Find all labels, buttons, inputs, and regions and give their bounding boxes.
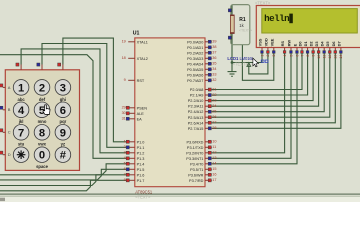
svg-text:vwx: vwx xyxy=(38,142,47,147)
svg-text:<TEXT>: <TEXT> xyxy=(239,29,252,33)
svg-text:17: 17 xyxy=(212,178,216,182)
pin ALE (30) xyxy=(128,112,135,114)
pin P0.2/AD2 (37) xyxy=(205,52,212,54)
wire P2.4 to LCD D4 xyxy=(212,53,324,112)
key 3 xyxy=(55,80,71,96)
pin P0.4/AD4 (35) xyxy=(205,63,212,65)
LCD pin VEE (3) xyxy=(273,48,275,52)
svg-text:12: 12 xyxy=(212,151,216,155)
hand cursor on key 5 xyxy=(43,105,50,115)
svg-text:8: 8 xyxy=(39,127,45,139)
svg-text:D2: D2 xyxy=(309,41,314,47)
svg-text:XTAL2: XTAL2 xyxy=(137,57,148,61)
svg-text:P1.6: P1.6 xyxy=(137,173,145,177)
pin P2.7/A15 (28) xyxy=(205,127,212,129)
svg-text:4: 4 xyxy=(124,156,126,160)
svg-text:<TEXT>: <TEXT> xyxy=(233,61,249,66)
LCD pin D0 (7) xyxy=(301,48,303,52)
svg-text:34: 34 xyxy=(212,67,216,71)
key 9 xyxy=(55,125,71,141)
svg-text:RW: RW xyxy=(287,40,292,47)
svg-text:EA: EA xyxy=(137,117,143,121)
wire P1.4 to keypad row A via bottom xyxy=(0,164,128,175)
pin P1.1 (2) xyxy=(128,146,135,148)
svg-text:P1.7: P1.7 xyxy=(137,179,145,183)
svg-text:helln: helln xyxy=(264,13,289,24)
wire P3.3 to LCD RW xyxy=(212,53,291,158)
keypad column pin 3 xyxy=(62,65,64,70)
svg-text:RST: RST xyxy=(137,79,145,83)
svg-text:15: 15 xyxy=(212,167,216,171)
svg-text:D4: D4 xyxy=(320,41,325,47)
pin P3.0/RXD (10) xyxy=(205,141,212,143)
svg-text:P1.1: P1.1 xyxy=(137,146,145,150)
pin P3.4/T0 (14) xyxy=(205,163,212,165)
keypad column pin 1 xyxy=(20,65,22,70)
svg-text:P0.5/AD5: P0.5/AD5 xyxy=(187,68,203,72)
key 4 xyxy=(13,102,29,118)
svg-text:7: 7 xyxy=(18,127,24,139)
pin P1.6 (7) xyxy=(128,174,135,176)
wire P2.7 to LCD D7 xyxy=(212,53,341,128)
pin EA (31) xyxy=(128,118,135,120)
pin P0.3/AD3 (36) xyxy=(205,57,212,59)
svg-text:D7: D7 xyxy=(336,41,341,46)
svg-text:21: 21 xyxy=(212,87,216,91)
svg-text:P1.3: P1.3 xyxy=(137,157,145,161)
keypad column pin 2 xyxy=(41,65,43,70)
svg-text:2: 2 xyxy=(266,55,270,57)
svg-text:RS: RS xyxy=(280,41,285,47)
mouse arrow cursor xyxy=(253,58,259,67)
LCD pin D2 (9) xyxy=(312,48,314,52)
svg-text:A: A xyxy=(8,85,11,90)
svg-text:30: 30 xyxy=(122,111,126,115)
pin P0.5/AD5 (34) xyxy=(205,68,212,70)
key 0 xyxy=(34,147,50,163)
svg-text:14: 14 xyxy=(212,162,216,166)
svg-text:16: 16 xyxy=(212,173,216,177)
svg-text:2: 2 xyxy=(124,145,126,149)
svg-text:P2.6/A14: P2.6/A14 xyxy=(188,121,204,125)
svg-text:0: 0 xyxy=(39,150,45,162)
svg-text:8: 8 xyxy=(124,178,126,182)
MCU U1 AT89C51 xyxy=(135,38,205,187)
svg-text:P0.2/AD2: P0.2/AD2 xyxy=(187,51,203,55)
LCD pin VSS (1) xyxy=(261,48,263,52)
svg-text:37: 37 xyxy=(212,51,216,55)
svg-text:<TEXT>: <TEXT> xyxy=(135,195,151,200)
svg-text:abc: abc xyxy=(17,97,25,102)
svg-text:<TEXT>: <TEXT> xyxy=(255,0,271,5)
svg-text:P3.2/INT0: P3.2/INT0 xyxy=(186,151,203,155)
wire P2.3 to LCD D3 xyxy=(212,53,319,106)
pin PSEN (29) xyxy=(128,107,135,109)
key 2 xyxy=(34,80,50,96)
svg-text:VDD: VDD xyxy=(263,38,268,46)
keypad row pin A xyxy=(3,86,6,88)
svg-text:P0.1/AD1: P0.1/AD1 xyxy=(187,46,203,50)
LCD pin VDD (2) xyxy=(267,48,269,52)
wire P1.7 to keypad row D via bottom xyxy=(0,180,128,191)
pin P3.2/INT0 (12) xyxy=(205,152,212,154)
key 8 xyxy=(34,125,50,141)
svg-text:P2.2/A10: P2.2/A10 xyxy=(188,99,204,103)
sheet border bottom xyxy=(0,197,360,202)
svg-text:11: 11 xyxy=(212,145,216,149)
svg-text:18: 18 xyxy=(122,56,126,60)
svg-text:9: 9 xyxy=(311,55,315,57)
pin P2.0/A8 (21) xyxy=(205,89,212,91)
pin P0.1/AD1 (38) xyxy=(205,46,212,48)
key 5 xyxy=(34,102,50,118)
svg-text:8: 8 xyxy=(306,55,310,57)
svg-text:1: 1 xyxy=(260,55,264,57)
svg-text:P2.1/A9: P2.1/A9 xyxy=(190,94,204,98)
svg-text:38: 38 xyxy=(212,45,216,49)
wire P2.0 to LCD D0 xyxy=(212,53,302,90)
svg-text:19: 19 xyxy=(122,40,126,44)
svg-text:P2.7/A15: P2.7/A15 xyxy=(188,127,204,131)
pin P3.6/WR (16) xyxy=(205,174,212,176)
svg-text:PSEN: PSEN xyxy=(137,106,148,110)
key # xyxy=(55,147,71,163)
svg-text:jkl: jkl xyxy=(18,119,24,124)
resistor R1 xyxy=(230,15,234,34)
svg-text:3: 3 xyxy=(272,55,276,57)
wire R1 bottom to ground xyxy=(231,34,233,63)
svg-text:26: 26 xyxy=(212,115,216,119)
svg-text:ALE: ALE xyxy=(137,112,145,116)
svg-text:B: B xyxy=(8,107,11,112)
pin P2.2/A10 (23) xyxy=(205,100,212,102)
svg-text:P0.4/AD4: P0.4/AD4 xyxy=(187,62,203,66)
wire LCD VEE to R1 xyxy=(242,45,273,81)
pin P2.4/A12 (25) xyxy=(205,111,212,113)
pin P1.3 (4) xyxy=(128,157,135,159)
wire LCD VSS to ground node xyxy=(232,53,262,63)
key 1 xyxy=(13,80,29,96)
svg-text:C: C xyxy=(8,130,11,135)
pin P1.0 (1) xyxy=(128,141,135,143)
LCD pin RS (4) xyxy=(284,48,286,52)
svg-text:P3.0/RXD: P3.0/RXD xyxy=(187,140,204,144)
wire LCD VDD to power xyxy=(249,53,268,74)
svg-text:25: 25 xyxy=(212,110,216,114)
svg-text:1: 1 xyxy=(124,140,126,144)
junction node xyxy=(231,61,234,64)
pin P0.7/AD7 (32) xyxy=(205,79,212,81)
svg-text:ghi: ghi xyxy=(60,97,66,102)
wire P1.6 to keypad row C via bottom xyxy=(0,175,128,186)
svg-text:7: 7 xyxy=(300,55,304,57)
svg-text:31: 31 xyxy=(122,117,126,121)
svg-text:P1.5: P1.5 xyxy=(137,168,145,172)
svg-text:P2.0/A8: P2.0/A8 xyxy=(190,88,204,92)
svg-text:P2.4/A12: P2.4/A12 xyxy=(188,110,204,114)
LCD pin D1 (8) xyxy=(307,48,309,52)
svg-text:P3.4/T0: P3.4/T0 xyxy=(190,162,203,166)
svg-text:13: 13 xyxy=(212,156,216,160)
wire P1.5 to keypad row B via bottom xyxy=(0,169,128,180)
svg-text:2: 2 xyxy=(39,82,45,94)
wire P2.2 to LCD D2 xyxy=(212,53,313,101)
svg-text:28: 28 xyxy=(212,126,216,130)
keypad row pin B xyxy=(3,109,6,111)
svg-text:3: 3 xyxy=(124,151,126,155)
svg-text:D1: D1 xyxy=(303,41,308,47)
pin P1.5 (6) xyxy=(128,168,135,170)
pin P3.5/T1 (15) xyxy=(205,168,212,170)
wire P3.2 to LCD RS xyxy=(212,53,285,153)
svg-text:yz: yz xyxy=(61,142,65,147)
pin RST (9) xyxy=(128,79,135,81)
keypad row pin C xyxy=(3,131,6,133)
pin P1.4 (5) xyxy=(128,163,135,165)
svg-text:D6: D6 xyxy=(331,41,336,47)
svg-text:P1.2: P1.2 xyxy=(137,151,145,155)
svg-text:VEE: VEE xyxy=(269,38,274,46)
svg-text:stu: stu xyxy=(18,142,25,147)
svg-text:7: 7 xyxy=(124,173,126,177)
svg-text:5: 5 xyxy=(124,162,126,166)
svg-text:1: 1 xyxy=(18,82,24,94)
wire P2.6 to LCD D6 xyxy=(212,53,335,123)
LCD pin D6 (13) xyxy=(334,48,336,52)
svg-text:VSS: VSS xyxy=(258,38,263,46)
svg-text:5: 5 xyxy=(289,55,293,57)
key star xyxy=(13,147,29,163)
pin P2.3/A11 (24) xyxy=(205,105,212,107)
svg-text:P2.5/A13: P2.5/A13 xyxy=(188,116,204,120)
power arrow xyxy=(247,63,251,67)
svg-text:D5: D5 xyxy=(325,41,330,47)
svg-text:4: 4 xyxy=(18,105,25,117)
LCD cursor block xyxy=(289,14,293,24)
svg-text:29: 29 xyxy=(122,106,126,110)
LCD pin D5 (12) xyxy=(329,48,331,52)
pin P3.3/INT1 (13) xyxy=(205,157,212,159)
LCD pin E (6) xyxy=(296,48,298,52)
pin P1.2 (3) xyxy=(128,152,135,154)
svg-text:P0.0/AD0: P0.0/AD0 xyxy=(187,40,203,44)
wire keypad col2 to P1.1 xyxy=(42,44,128,148)
svg-text:P3.3/INT1: P3.3/INT1 xyxy=(186,157,203,161)
svg-text:14: 14 xyxy=(339,55,343,59)
svg-text:6: 6 xyxy=(295,55,299,57)
wire keypad col1 to P1.2 xyxy=(21,49,128,153)
svg-text:P0.6/AD6: P0.6/AD6 xyxy=(187,73,203,77)
svg-text:P3.5/T1: P3.5/T1 xyxy=(190,168,203,172)
pin P3.7/RD (17) xyxy=(205,179,212,181)
pin P2.1/A9 (22) xyxy=(205,94,212,96)
svg-text:10: 10 xyxy=(317,55,321,59)
svg-text:11: 11 xyxy=(323,55,327,59)
svg-text:23: 23 xyxy=(212,99,216,103)
svg-text:P2.3/A11: P2.3/A11 xyxy=(188,105,203,109)
svg-text:39: 39 xyxy=(212,40,216,44)
R1 highlight box xyxy=(231,5,250,45)
svg-text:12: 12 xyxy=(328,55,332,59)
svg-text:35: 35 xyxy=(212,62,216,66)
svg-text:mno: mno xyxy=(38,119,47,124)
svg-text:6: 6 xyxy=(124,167,126,171)
wire P2.1 to LCD D1 xyxy=(212,53,308,95)
LCD pin RW (5) xyxy=(290,48,292,52)
pin P1.7 (8) xyxy=(128,179,135,181)
ground xyxy=(231,63,233,72)
svg-text:P0.3/AD3: P0.3/AD3 xyxy=(187,57,203,61)
wire net from left edge to P1.3 xyxy=(0,55,128,159)
svg-text:24: 24 xyxy=(212,104,216,108)
pin P3.1/TXD (11) xyxy=(205,146,212,148)
svg-text:27: 27 xyxy=(212,121,216,125)
svg-text:13: 13 xyxy=(334,55,338,59)
svg-text:4: 4 xyxy=(283,55,287,57)
svg-text:D3: D3 xyxy=(314,41,319,47)
pin P2.5/A13 (26) xyxy=(205,116,212,118)
wire P2.5 to LCD D5 xyxy=(212,53,330,117)
svg-text:33: 33 xyxy=(212,73,216,77)
svg-text:D0: D0 xyxy=(298,41,303,46)
svg-text:P3.1/TXD: P3.1/TXD xyxy=(187,146,204,150)
svg-text:9: 9 xyxy=(60,127,66,139)
svg-text:XTAL1: XTAL1 xyxy=(137,40,148,44)
key 6 xyxy=(55,102,71,118)
LCD screen xyxy=(262,9,358,33)
svg-text:10: 10 xyxy=(212,140,216,144)
keypad row pin D xyxy=(3,154,6,156)
wire R1 top xyxy=(231,5,233,15)
svg-text:9: 9 xyxy=(124,78,126,82)
svg-text:36: 36 xyxy=(212,56,216,60)
svg-text:pqr: pqr xyxy=(60,119,67,124)
svg-text:P3.7/RD: P3.7/RD xyxy=(189,179,204,183)
svg-text:def: def xyxy=(39,97,46,102)
svg-text:space: space xyxy=(36,164,49,169)
pin P2.6/A14 (27) xyxy=(205,122,212,124)
svg-text:U1: U1 xyxy=(133,31,140,37)
key 7 xyxy=(13,125,29,141)
svg-text:P1.0: P1.0 xyxy=(137,140,145,144)
svg-text:P1.4: P1.4 xyxy=(137,162,145,166)
pin P0.6/AD6 (33) xyxy=(205,74,212,76)
svg-text:6: 6 xyxy=(60,105,66,117)
pin XTAL1 (19) xyxy=(128,41,135,43)
svg-text:P3.6/WR: P3.6/WR xyxy=(188,173,203,177)
keypad KEYPAD-PHONE xyxy=(5,70,79,171)
wire keypad col3 to P1.0 xyxy=(63,38,128,142)
LCD pin D4 (11) xyxy=(323,48,325,52)
svg-text:3: 3 xyxy=(60,82,66,94)
LCD pin D3 (10) xyxy=(318,48,320,52)
LCD pin D7 (14) xyxy=(340,48,342,52)
svg-text:#: # xyxy=(60,150,67,162)
wire P3.4 to LCD E xyxy=(212,53,297,164)
LCD1 LM016L xyxy=(256,6,360,48)
pin P0.0/AD0 (39) xyxy=(205,41,212,43)
svg-text:P0.7/AD7: P0.7/AD7 xyxy=(187,79,203,83)
svg-text:32: 32 xyxy=(212,78,216,82)
blue hint glyph xyxy=(261,60,264,63)
svg-text:D: D xyxy=(8,152,11,157)
pin XTAL2 (18) xyxy=(128,57,135,59)
svg-text:22: 22 xyxy=(212,93,216,97)
